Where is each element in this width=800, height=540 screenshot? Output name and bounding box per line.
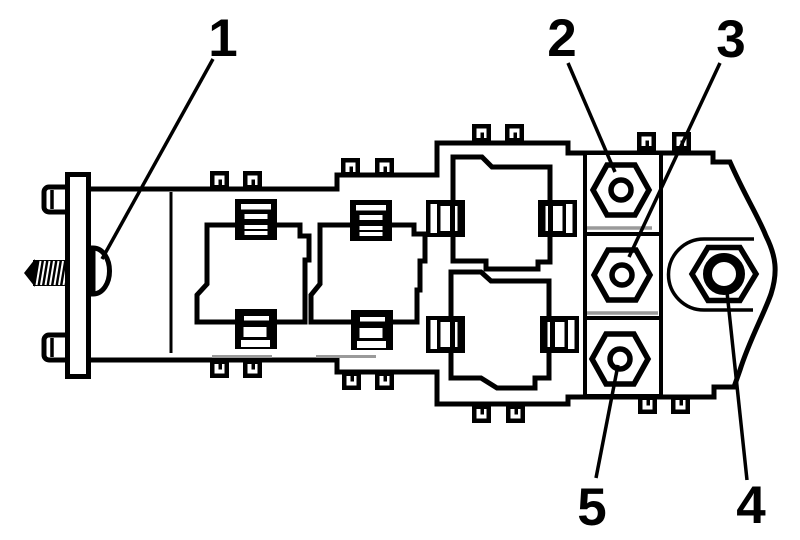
bottom edge tab pair D bbox=[638, 394, 657, 414]
relay block 3 bbox=[453, 157, 550, 269]
hex nut 5 bbox=[592, 334, 648, 384]
relay 2 bottom clamp bbox=[351, 310, 393, 350]
top edge tab pair C bbox=[472, 124, 491, 145]
svg-text:1: 1 bbox=[208, 9, 237, 68]
left bracket tab top bbox=[44, 187, 70, 212]
relay 3 left clamp bbox=[426, 200, 465, 237]
svg-text:4: 4 bbox=[736, 476, 766, 535]
top edge tab pair A bbox=[210, 171, 229, 191]
top edge tab pair B bbox=[341, 158, 360, 177]
gray shadow under relay 1 bbox=[212, 355, 272, 358]
hex nut 2 bbox=[593, 165, 649, 215]
relay block 1 bbox=[197, 225, 309, 322]
relay 1 top clamp bbox=[235, 199, 277, 240]
main body outline bbox=[88, 143, 775, 404]
svg-text:3: 3 bbox=[716, 10, 745, 69]
relay block 4 bbox=[451, 272, 549, 388]
relay 1 bottom clamp bbox=[235, 309, 277, 349]
gray shadow right of bar bbox=[91, 250, 94, 292]
semicircle bump on bar bbox=[93, 248, 110, 294]
svg-text:2: 2 bbox=[547, 9, 576, 68]
gray shadow line cell3 bbox=[587, 311, 658, 315]
hex nut 3 bbox=[594, 250, 650, 300]
leader line 4 bbox=[727, 292, 747, 480]
relay 4 right clamp bbox=[540, 316, 579, 353]
relay block 2 bbox=[311, 225, 425, 322]
interior divider line bbox=[170, 192, 173, 353]
hex nut 4 bbox=[692, 248, 756, 301]
leader line 1 bbox=[102, 59, 213, 259]
bottom edge tab pair B bbox=[342, 370, 361, 390]
nut 4 circular boss bbox=[669, 239, 755, 310]
svg-text:5: 5 bbox=[577, 478, 606, 535]
hex nut cell 5 box bbox=[585, 318, 661, 396]
screw shaft bbox=[24, 259, 68, 287]
leader line 5 bbox=[596, 365, 618, 478]
leader line 3 bbox=[629, 63, 720, 257]
gray shadow line cell2 bbox=[587, 226, 652, 230]
hex nut cell 3 box bbox=[585, 234, 661, 318]
bottom edge tab pair A bbox=[210, 358, 229, 378]
top edge tab pair D bbox=[637, 132, 656, 154]
relay 3 right clamp bbox=[538, 200, 577, 237]
hex nut cell 2 box bbox=[585, 153, 661, 234]
left bracket tab bottom bbox=[44, 335, 70, 360]
leader line 2 bbox=[568, 63, 615, 172]
relay 4 left clamp bbox=[426, 316, 465, 353]
bottom edge tab pair C bbox=[472, 402, 491, 423]
relay 2 top clamp bbox=[350, 200, 392, 241]
left bracket bar bbox=[68, 175, 89, 377]
